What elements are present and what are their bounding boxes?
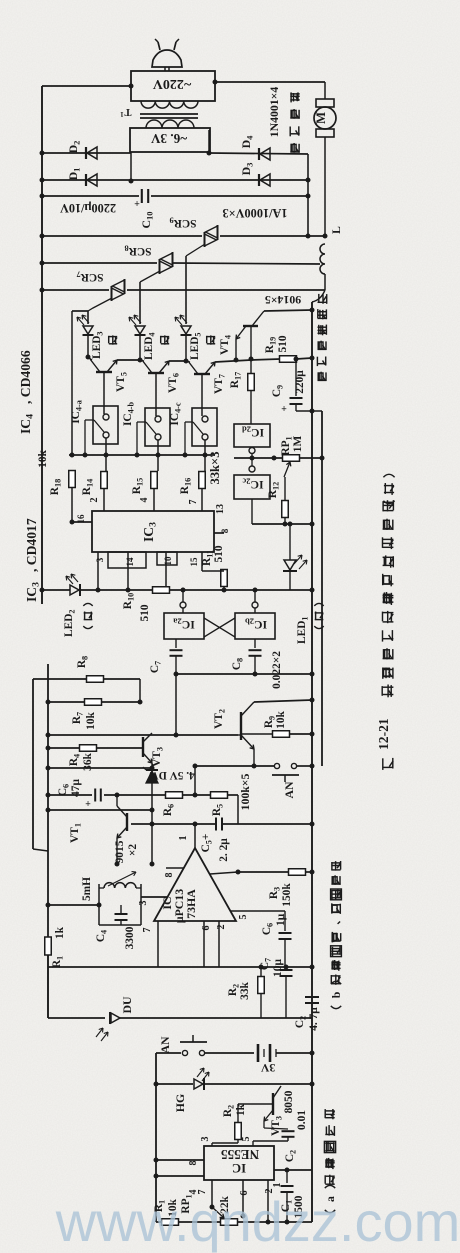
resistor R7 10k	[85, 699, 102, 706]
220V box	[131, 71, 215, 101]
svg-text:, CD4017: , CD4017	[24, 518, 39, 572]
svg-text:73HA: 73HA	[184, 889, 198, 919]
svg-text:, CD4066: , CD4066	[18, 350, 33, 404]
transistor VT3 8050	[204, 1083, 312, 1085]
inverter IC2b	[254, 590, 256, 602]
IR LED HG	[156, 1083, 193, 1085]
svg-text:1k: 1k	[54, 926, 66, 939]
svg-text:10k: 10k	[275, 710, 287, 728]
resistor R9 10k	[273, 731, 290, 738]
pin 10	[165, 552, 167, 590]
coil 5mH adjustable	[99, 887, 104, 889]
pin tab boxes under IC3	[108, 552, 146, 568]
svg-text:1A/1000V×3: 1A/1000V×3	[222, 206, 287, 220]
diode D4	[207, 151, 212, 156]
capacitor C2tx 0.01	[282, 1130, 295, 1132]
transistor VT4	[243, 325, 258, 327]
capacitor C9 220u	[295, 359, 297, 396]
svg-text:1: 1	[178, 836, 189, 841]
R7 row	[46, 700, 51, 705]
capacitor C2b 4.7u on rail	[305, 996, 319, 998]
svg-text:T: T	[124, 106, 131, 117]
resistor R8	[87, 676, 104, 683]
svg-text:3300: 3300	[124, 926, 136, 949]
VT3 collector row	[46, 733, 51, 738]
IC4 switch c	[192, 408, 217, 446]
VT4 collector row	[264, 310, 312, 311]
capacitor C6b 1u	[284, 911, 286, 931]
svg-text:4: 4	[139, 498, 150, 503]
link down to VT2 base row	[175, 674, 177, 735]
photodiode DU	[109, 1012, 111, 1024]
svg-text:13: 13	[215, 504, 226, 514]
pin 2 wire	[218, 921, 220, 967]
svg-text:9015: 9015	[114, 840, 126, 863]
base lead VT4	[250, 327, 252, 359]
svg-text:~6. 3V: ~6. 3V	[150, 131, 187, 146]
transistor VT2	[240, 712, 242, 740]
svg-text:LED3: LED3	[91, 331, 105, 359]
label fan motor	[290, 143, 299, 153]
wire 6.3V box to D1 row	[130, 152, 132, 181]
resistor R12	[284, 477, 286, 501]
label (b) receiver decoder	[331, 975, 340, 985]
pin 4 stub	[210, 872, 238, 874]
pin 1 wire	[274, 1169, 312, 1171]
svg-text:+: +	[134, 197, 140, 208]
pin 4 wire	[156, 1175, 204, 1177]
svg-text:IC: IC	[232, 1161, 246, 1175]
amplifier triangle IC1	[154, 848, 236, 921]
pin 14	[127, 552, 129, 590]
tank right vertical	[140, 884, 142, 925]
capacitor C1tx 1500	[286, 1170, 288, 1183]
transformer secondary winding	[146, 120, 194, 128]
svg-text:9014×5: 9014×5	[265, 293, 301, 307]
label (a) IR transmitter	[325, 1175, 335, 1186]
R19 510 row	[251, 359, 280, 360]
pin 7 wire	[211, 1180, 213, 1207]
svg-text:1μ: 1μ	[275, 913, 287, 926]
capacitor C10 2200u/10V	[141, 189, 143, 203]
pin 16 wire	[72, 521, 92, 523]
svg-text:10k: 10k	[37, 449, 49, 467]
resistor R15	[151, 472, 158, 489]
R8 row	[33, 678, 140, 680]
tx left rail	[155, 1053, 157, 1222]
svg-text:7: 7	[142, 928, 153, 933]
inverter IC2a	[182, 590, 184, 602]
svg-text:M: M	[314, 112, 328, 124]
svg-text:LED2: LED2	[63, 609, 77, 637]
tank left vertical	[98, 884, 100, 925]
svg-text:33k×3: 33k×3	[208, 451, 222, 484]
outer right rail	[321, 411, 323, 766]
pin 15 wire to R11	[201, 552, 203, 571]
svg-text:3V: 3V	[260, 1061, 275, 1075]
VT3 base row with R4	[46, 746, 51, 751]
svg-text:LED1: LED1	[296, 616, 310, 644]
tank top to row	[99, 904, 141, 906]
battery 3V	[257, 1044, 260, 1062]
resistor R4 36k	[80, 745, 97, 752]
capacitor C4 3300	[115, 913, 128, 915]
x152 vertical link	[151, 810, 153, 864]
svg-text:www.qndzz.com: www.qndzz.com	[55, 1190, 460, 1253]
svg-text:510: 510	[139, 604, 151, 621]
transistor VT5	[96, 371, 112, 373]
svg-text:12-21: 12-21	[376, 718, 391, 750]
SCR8 row	[40, 261, 45, 266]
svg-text:220μ: 220μ	[294, 370, 306, 394]
resistor R2tx 1k	[238, 1103, 273, 1105]
inductor L	[320, 244, 325, 274]
resistor R2 33k	[258, 977, 265, 994]
LED1 yellow	[289, 524, 291, 560]
pin 6 wire	[203, 921, 205, 967]
svg-text:1k: 1k	[235, 1103, 247, 1116]
svg-text:0.022×2: 0.022×2	[271, 651, 283, 689]
svg-text:10: 10	[163, 556, 173, 566]
LED2 symbol	[70, 585, 79, 595]
svg-text:510: 510	[277, 335, 289, 352]
cross coupling	[204, 618, 235, 637]
LED2 yellow row	[40, 588, 45, 593]
bias row y768	[48, 767, 152, 769]
control bus under switches	[69, 454, 215, 456]
diode D2	[87, 147, 97, 159]
LED3 red	[83, 326, 93, 334]
svg-text:2: 2	[216, 925, 227, 930]
transformer T1 primary winding	[141, 101, 198, 108]
svg-text:AN: AN	[282, 781, 296, 799]
capacitor C7b 10u	[280, 969, 293, 971]
svg-text:2: 2	[89, 498, 100, 503]
svg-text:510: 510	[213, 545, 225, 562]
resistor R11 510 from pin15	[221, 570, 228, 587]
left rail	[41, 86, 43, 604]
bridge row D1 D3	[40, 178, 45, 183]
pin 7 wire	[157, 921, 159, 967]
diode D3	[260, 174, 270, 186]
svg-text:10k: 10k	[85, 711, 97, 729]
svg-text:15: 15	[189, 557, 199, 567]
resistor R10 510	[153, 587, 170, 594]
transistor VT6	[148, 372, 164, 374]
pin 8 stub	[166, 867, 184, 869]
svg-text:NE555: NE555	[221, 1147, 260, 1162]
filter row with C10	[40, 194, 45, 199]
fan motor M	[316, 99, 334, 107]
SCR9 gate wire	[186, 244, 205, 256]
pin 3 stub	[141, 896, 168, 898]
left outer rail	[32, 679, 34, 849]
jog to outer right rail	[296, 410, 322, 412]
VT3tx emitter to C2tx	[263, 1121, 265, 1128]
inverter IC2c	[251, 458, 253, 466]
svg-text:5: 5	[238, 915, 249, 920]
svg-text:5: 5	[241, 1137, 252, 1142]
resistor R17	[250, 359, 252, 374]
capacitor C6 47u	[94, 789, 96, 802]
svg-text:16: 16	[76, 514, 86, 524]
svg-text:10μ: 10μ	[272, 959, 284, 977]
svg-text:47μ: 47μ	[70, 779, 82, 797]
NE555 box	[204, 1146, 274, 1180]
svg-text:LED5: LED5	[189, 332, 203, 360]
resistor R5 horizontal	[211, 792, 228, 799]
svg-text:+: +	[85, 797, 91, 808]
transistor VT1 9015x2	[126, 813, 128, 831]
capacitor C7 0.022	[175, 639, 177, 648]
row y810	[46, 808, 51, 813]
SCR7 row	[40, 288, 45, 293]
pin 6 wire	[242, 1180, 244, 1216]
AN2 row	[195, 765, 274, 767]
IC3 box	[92, 511, 214, 552]
SCR7 gate wire	[88, 298, 112, 311]
SCR8 gate wire	[140, 271, 160, 282]
svg-text:1N4001×4: 1N4001×4	[267, 87, 281, 138]
svg-text:100k×5: 100k×5	[238, 773, 252, 810]
triac SCR7	[111, 286, 113, 301]
capacitor C8 0.022	[254, 639, 256, 648]
photodiode DU row	[47, 955, 49, 1018]
svg-text:L: L	[329, 226, 343, 234]
tank row	[46, 903, 51, 908]
IC4 switch a	[93, 406, 118, 444]
svg-text:2200μ/10V: 2200μ/10V	[60, 201, 116, 215]
svg-text:1M: 1M	[292, 436, 304, 453]
svg-text:1: 1	[120, 110, 124, 118]
svg-text:8: 8	[188, 1161, 199, 1166]
IC2d output bubble	[249, 448, 255, 454]
wire 220V box to left rail	[129, 84, 134, 89]
link AN row to bias row	[194, 766, 196, 795]
svg-text:DU: DU	[120, 996, 134, 1014]
wire 220V box to motor	[213, 80, 218, 85]
svg-text:×2: ×2	[127, 844, 139, 856]
svg-text:3: 3	[200, 1137, 211, 1142]
transformer core	[140, 113, 198, 115]
svg-text:8050: 8050	[283, 1090, 295, 1113]
triac SCR9	[204, 232, 206, 247]
resistor R3 150k	[289, 869, 306, 876]
zener DW 4.5V	[151, 763, 153, 770]
pushbutton AN	[274, 763, 279, 768]
resistor R14	[101, 472, 108, 489]
row under flipflop	[176, 673, 312, 675]
resistor R1 1k in rail	[45, 937, 52, 955]
svg-text:6: 6	[201, 926, 212, 931]
capacitor C5 2.2u	[215, 818, 217, 831]
transistor VT7	[194, 373, 210, 375]
6.3V box	[130, 128, 210, 152]
triac SCR8	[159, 259, 161, 274]
VT1 base row / pin1 row	[131, 823, 216, 825]
svg-text:AN: AN	[158, 1036, 172, 1054]
right rail from L	[312, 290, 325, 302]
DC bus right vertical	[307, 154, 309, 236]
svg-text:0.01: 0.01	[296, 1110, 308, 1130]
svg-text:5mH: 5mH	[81, 877, 93, 901]
transistor VT3	[142, 737, 144, 757]
resistor R16	[199, 472, 206, 489]
LED4 red	[135, 326, 145, 334]
IC2d box	[234, 424, 270, 447]
resistor R18 10k	[69, 471, 76, 488]
VT2 collector to rail	[254, 700, 312, 702]
pushbutton AN tx	[156, 1052, 181, 1054]
pin 2 wire	[267, 1180, 269, 1222]
pot RP1tx 22k	[221, 1219, 238, 1226]
diode D1	[87, 174, 97, 186]
resistor R1tx 10k	[162, 1219, 179, 1226]
row under IC2c	[251, 499, 253, 524]
label fan inductance coil	[318, 372, 327, 381]
wire to R10	[80, 589, 152, 591]
svg-text:7: 7	[188, 500, 199, 505]
inner left rail	[47, 664, 49, 1018]
resistor R19 510	[280, 356, 297, 363]
pot RP1 1M	[283, 455, 300, 462]
svg-text:8: 8	[164, 873, 175, 878]
bridge row D2 D4	[40, 151, 45, 156]
row under IC2d	[234, 457, 322, 459]
IC4 switch b	[145, 408, 170, 446]
SCR9 row	[40, 234, 45, 239]
svg-text:+: +	[281, 402, 287, 413]
svg-text:150k: 150k	[281, 883, 293, 907]
LED5 red	[181, 326, 191, 334]
svg-text:14: 14	[125, 557, 135, 567]
R3 150k row	[238, 871, 289, 873]
R9 10k row from base	[241, 733, 273, 735]
svg-text:33k: 33k	[239, 981, 251, 999]
long row 967	[48, 966, 312, 968]
pin 5 stub	[230, 910, 285, 912]
svg-text:3: 3	[138, 901, 149, 906]
svg-text:4. 7μ: 4. 7μ	[308, 1007, 320, 1031]
pin 8 wire	[156, 1159, 204, 1161]
row y795 with C6	[46, 793, 51, 798]
pin 1 wire	[194, 824, 196, 848]
pin 3 wire to LED2 row	[97, 552, 99, 590]
svg-text:~220V: ~220V	[153, 76, 191, 91]
svg-text:LED4: LED4	[143, 332, 157, 360]
caption fig 12-21	[383, 758, 394, 770]
svg-text:4. 5V DW: 4. 5V DW	[147, 769, 195, 781]
svg-text:2. 2μ: 2. 2μ	[218, 838, 230, 862]
svg-text:HG: HG	[173, 1094, 187, 1112]
SCR8 row right to coil tap	[172, 263, 320, 264]
resistor R6 horizontal	[166, 792, 183, 799]
VT2 emitter down	[253, 749, 255, 766]
pin 8	[214, 532, 224, 534]
bottom row tx	[156, 1221, 312, 1223]
svg-text:3: 3	[95, 557, 105, 562]
svg-text:b: b	[329, 991, 343, 998]
VT2 base row	[238, 734, 241, 736]
svg-text:8: 8	[220, 528, 230, 533]
AC plug	[152, 50, 182, 67]
